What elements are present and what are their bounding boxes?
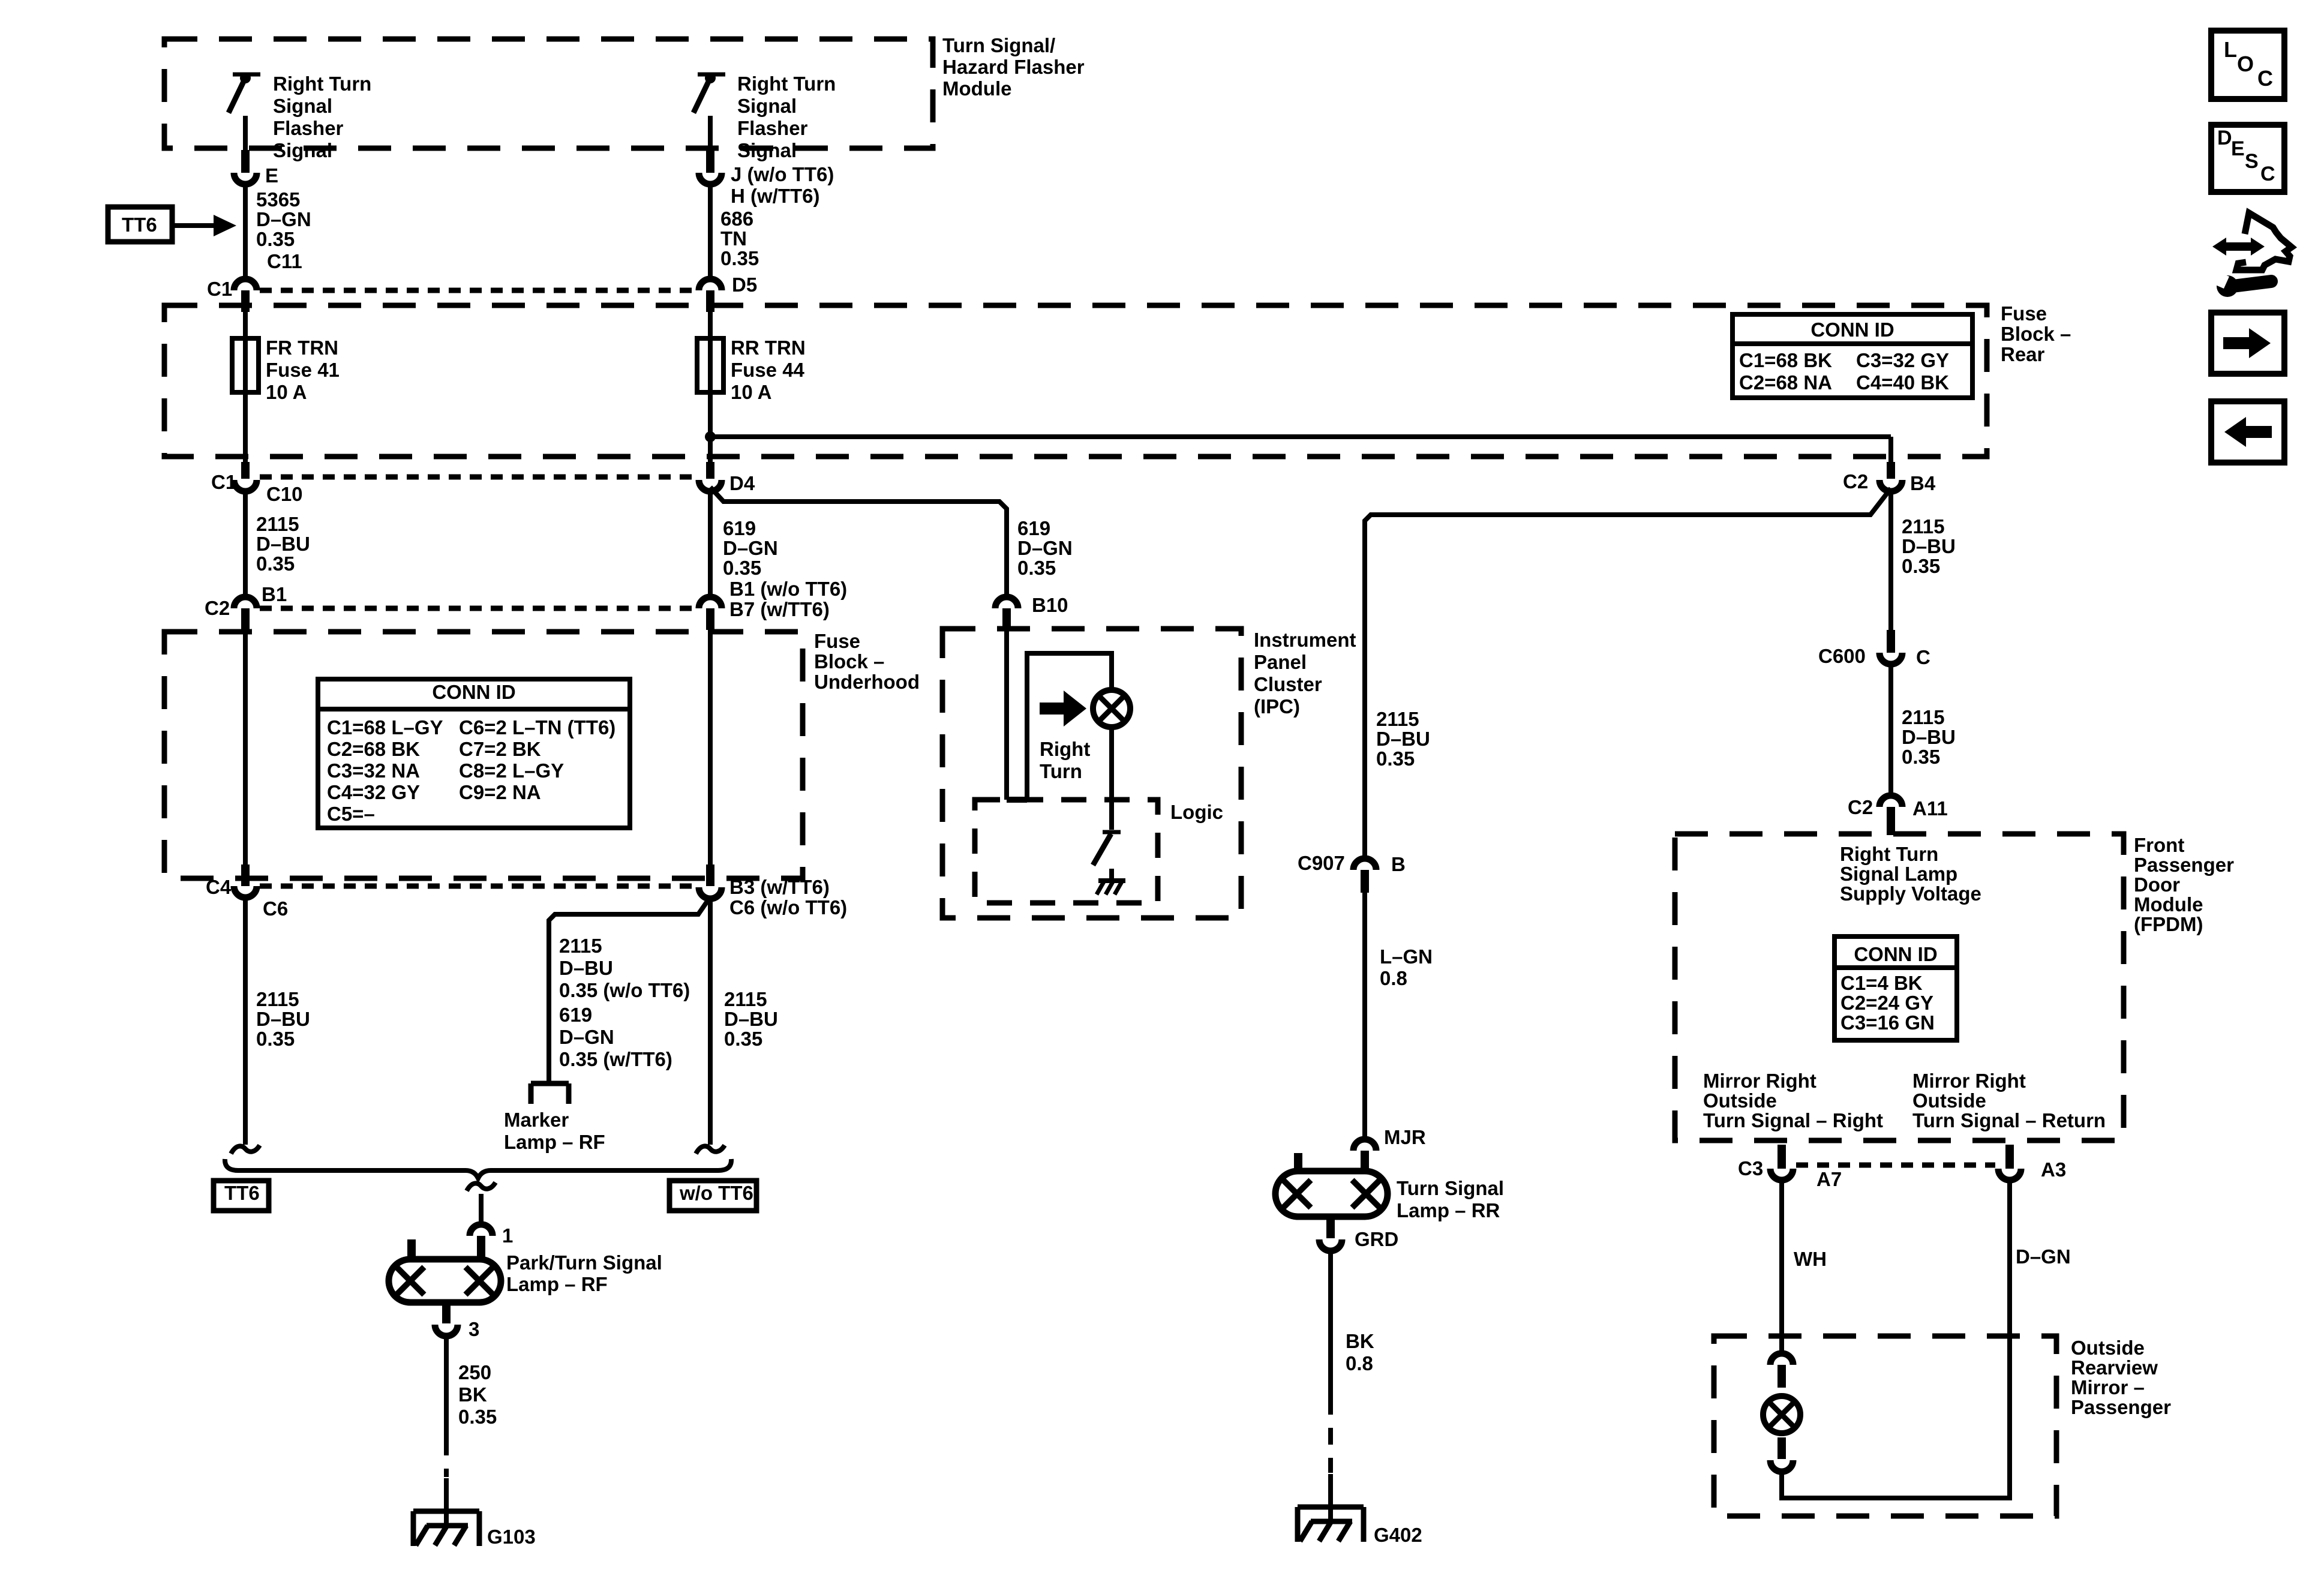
lamp RR filament right — [1352, 1180, 1380, 1208]
dotted line C1 to D5 — [260, 288, 696, 293]
svg-text:Right Turn: Right Turn — [273, 73, 371, 95]
wire fuse44 run down to B4 — [1888, 437, 1893, 464]
svg-text:Mirror –: Mirror – — [2071, 1376, 2145, 1398]
svg-text:E: E — [2231, 137, 2245, 160]
svg-text:H (w/TT6): H (w/TT6) — [731, 185, 819, 207]
svg-text:1: 1 — [502, 1224, 513, 1247]
connector B4 pin — [1887, 462, 1895, 479]
lamp RF bottom pin — [442, 1302, 451, 1323]
IPC right turn indicator lamp — [1093, 690, 1130, 727]
svg-text:5365: 5365 — [256, 188, 300, 211]
brace joining TT6 / w-o TT6 wires — [225, 1159, 731, 1178]
wire tap from B4 to C907 — [1365, 488, 1891, 856]
svg-text:C3: C3 — [1738, 1157, 1763, 1179]
Fuse Block - Underhood box — [164, 632, 803, 878]
svg-text:BK: BK — [1346, 1330, 1374, 1352]
connector C2 pin — [241, 608, 250, 630]
svg-text:C4=40 BK: C4=40 BK — [1856, 371, 1949, 394]
svg-text:0.35: 0.35 — [1902, 746, 1940, 768]
svg-text:0.35 (w/o TT6): 0.35 (w/o TT6) — [559, 979, 690, 1001]
lamp RR left pin — [1294, 1153, 1302, 1171]
svg-text:C6=2 L–TN (TT6): C6=2 L–TN (TT6) — [459, 716, 615, 739]
svg-text:C6 (w/o TT6): C6 (w/o TT6) — [729, 896, 847, 918]
wire B3 down to brace — [708, 899, 713, 1145]
svg-text:Turn: Turn — [1040, 760, 1082, 782]
wrench — [2217, 275, 2238, 297]
svg-text:D5: D5 — [732, 274, 757, 296]
svg-text:A7: A7 — [1816, 1168, 1842, 1190]
dashed wire to G402 — [1328, 1398, 1333, 1473]
svg-text:2115: 2115 — [1376, 708, 1419, 730]
svg-text:TT6: TT6 — [122, 214, 157, 236]
svg-text:w/o TT6: w/o TT6 — [679, 1182, 753, 1204]
svg-text:Right Turn: Right Turn — [1840, 843, 1938, 865]
MJR pin into lamp — [1361, 1151, 1369, 1171]
connector B3/C6 pin — [706, 864, 714, 886]
dotted line C2 to B7 — [260, 606, 696, 611]
svg-text:Fuse: Fuse — [2001, 302, 2047, 325]
svg-text:Rear: Rear — [2001, 343, 2045, 365]
next page icon — [2211, 313, 2284, 374]
svg-text:Signal: Signal — [273, 95, 332, 117]
svg-text:0.35: 0.35 — [724, 1028, 762, 1050]
svg-text:Right Turn: Right Turn — [737, 73, 836, 95]
svg-text:C3=16 GN: C3=16 GN — [1840, 1011, 1935, 1034]
svg-text:D–BU: D–BU — [1376, 728, 1430, 750]
svg-text:686: 686 — [720, 208, 753, 230]
svg-text:Outside: Outside — [1912, 1089, 1986, 1112]
mirror lamp top pin — [1777, 1365, 1786, 1388]
svg-text:C2=68 BK: C2=68 BK — [327, 738, 420, 760]
svg-text:Lamp – RF: Lamp – RF — [506, 1273, 608, 1295]
wire junction to B4 horizontal — [710, 434, 1891, 439]
connector pin J/H — [706, 150, 714, 173]
Park/Turn Signal Lamp - RF body — [389, 1259, 501, 1302]
svg-text:E: E — [265, 164, 278, 187]
FPDM CONN ID table — [1834, 936, 1957, 1040]
connector A3 — [1998, 1169, 2021, 1180]
wire C10 to B1 label 2115 D-BU 0.35 — [243, 491, 248, 597]
svg-text:C2: C2 — [1843, 470, 1868, 493]
LOC icon — [2211, 31, 2284, 99]
svg-text:Supply Voltage: Supply Voltage — [1840, 882, 1981, 905]
flasher switch right — [698, 73, 725, 77]
svg-text:Logic: Logic — [1170, 801, 1223, 823]
svg-text:Signal Lamp: Signal Lamp — [1840, 863, 1957, 885]
connector B3/C6 — [699, 887, 722, 899]
svg-text:A3: A3 — [2041, 1158, 2066, 1181]
ground G402 — [1298, 1505, 1364, 1510]
svg-text:G103: G103 — [487, 1526, 536, 1548]
fuse FR TRN Fuse 41 10A — [232, 338, 259, 392]
connector A7 pin — [1777, 1145, 1786, 1169]
junction below fuse 44 — [705, 431, 716, 442]
svg-text:C3=32 NA: C3=32 NA — [327, 760, 420, 782]
connector C1/C11 — [234, 279, 257, 290]
svg-text:Mirror Right: Mirror Right — [1912, 1070, 2026, 1092]
svg-text:C2=24 GY: C2=24 GY — [1840, 992, 1933, 1014]
svg-text:Mirror Right: Mirror Right — [1703, 1070, 1816, 1092]
connector D4 pin — [706, 462, 714, 479]
lamp RR bottom pin — [1326, 1217, 1335, 1238]
dotted line C1 to D4 — [260, 475, 696, 480]
svg-text:Fuse 41: Fuse 41 — [266, 359, 340, 381]
svg-text:B1: B1 — [262, 583, 287, 605]
svg-text:BK: BK — [458, 1383, 487, 1406]
flasher switch left — [233, 73, 260, 77]
connector 1 pin — [477, 1236, 485, 1259]
wire D4 to B7 label 619 D-GN 0.35 — [708, 491, 713, 595]
svg-text:D–GN: D–GN — [559, 1026, 614, 1048]
wire B4 to C600 label 2115 D-BU 0.35 — [1888, 490, 1893, 630]
svg-text:FR TRN: FR TRN — [266, 337, 338, 359]
connector E — [234, 173, 257, 184]
svg-text:0.35: 0.35 — [720, 247, 759, 269]
mirror loop wire — [1779, 1472, 1784, 1500]
Fuse Block - Rear box — [164, 305, 1987, 457]
svg-text:C9=2 NA: C9=2 NA — [459, 781, 541, 803]
wire C1 to fuse41 — [243, 311, 248, 463]
logic chassis ground — [1098, 878, 1125, 883]
lamp RF filament right — [466, 1267, 493, 1295]
connector A11 pin — [1887, 807, 1895, 835]
logic switch blade — [1093, 834, 1111, 865]
wire branch to marker lamp — [549, 897, 710, 1081]
svg-text:D–BU: D–BU — [256, 533, 310, 555]
mirror lamp socket top — [1770, 1353, 1793, 1365]
svg-text:C4=32 GY: C4=32 GY — [327, 781, 420, 803]
svg-text:D–GN: D–GN — [2016, 1245, 2071, 1268]
svg-text:619: 619 — [559, 1004, 592, 1026]
svg-text:C8=2 L–GY: C8=2 L–GY — [459, 760, 564, 782]
connector D5 — [699, 279, 722, 290]
svg-text:MJR: MJR — [1384, 1126, 1426, 1148]
svg-text:A11: A11 — [1912, 797, 1948, 819]
Turn Signal Lamp - RR body — [1275, 1171, 1388, 1217]
svg-text:0.35: 0.35 — [1376, 748, 1415, 770]
Instrument Panel Cluster box — [942, 629, 1241, 918]
svg-text:C2: C2 — [1848, 796, 1873, 818]
svg-text:Turn Signal: Turn Signal — [1397, 1177, 1504, 1199]
lamp RF filament left — [397, 1267, 424, 1295]
svg-text:(IPC): (IPC) — [1254, 695, 1300, 718]
wire A7 to mirror label WH — [1779, 1180, 1784, 1352]
svg-text:Module: Module — [942, 77, 1011, 100]
svg-text:D4: D4 — [729, 472, 755, 494]
connector C2/B1 — [234, 597, 257, 608]
svg-text:Signal: Signal — [273, 139, 332, 161]
wire D5 to fuse44 — [708, 311, 713, 463]
park/turn lamp left pin — [407, 1239, 416, 1259]
logic switch tick — [1103, 830, 1121, 834]
svg-text:0.35: 0.35 — [256, 553, 295, 575]
svg-text:CONN ID: CONN ID — [1854, 943, 1937, 965]
svg-text:TN: TN — [720, 227, 747, 250]
svg-text:0.35: 0.35 — [256, 228, 295, 250]
svg-text:GRD: GRD — [1355, 1228, 1398, 1250]
connector C2/B4 — [1879, 480, 1902, 491]
svg-text:Turn Signal – Right: Turn Signal – Right — [1703, 1109, 1883, 1131]
svg-text:2115: 2115 — [1902, 515, 1945, 538]
wire D4 branch to B10 — [710, 487, 1007, 597]
svg-text:Turn Signal/: Turn Signal/ — [942, 34, 1055, 56]
wire A3 to mirror label D-GN — [2007, 1180, 2012, 1500]
w/o TT6 option box — [669, 1181, 756, 1211]
svg-text:D–BU: D–BU — [559, 957, 613, 979]
svg-text:C3=32 GY: C3=32 GY — [1856, 349, 1949, 371]
mirror lamp bottom pin — [1777, 1437, 1786, 1459]
svg-text:Instrument: Instrument — [1254, 629, 1356, 651]
svg-text:C: C — [2260, 163, 2275, 185]
svg-text:C7=2 BK: C7=2 BK — [459, 738, 541, 760]
svg-text:TT6: TT6 — [224, 1182, 260, 1204]
dashed wire to G103 — [444, 1439, 449, 1477]
connector C1/C10 pin — [241, 462, 250, 479]
lamp RR filament left — [1283, 1180, 1311, 1208]
connector C600/C — [1879, 653, 1902, 664]
svg-text:0.35: 0.35 — [723, 557, 761, 579]
svg-text:2115: 2115 — [256, 988, 299, 1010]
Front Passenger Door Module box — [1675, 834, 2124, 1140]
svg-text:Panel: Panel — [1254, 651, 1307, 673]
svg-text:B3 (w/TT6): B3 (w/TT6) — [729, 876, 830, 898]
wire through underhood fuse block right — [708, 629, 713, 866]
svg-text:C1: C1 — [207, 278, 232, 300]
svg-text:O: O — [2237, 52, 2254, 76]
svg-text:C2: C2 — [205, 597, 230, 619]
svg-text:S: S — [2245, 150, 2259, 173]
svg-text:10 A: 10 A — [266, 381, 307, 403]
svg-text:L–GN: L–GN — [1380, 945, 1433, 968]
svg-text:D–BU: D–BU — [724, 1008, 778, 1030]
wire break hook right — [696, 1145, 725, 1154]
svg-text:D–BU: D–BU — [1902, 726, 1956, 748]
wire break below brace tip — [467, 1182, 496, 1191]
wire break hook left — [231, 1145, 260, 1154]
wire through underhood fuse block — [243, 629, 248, 866]
connector C4/C6 — [234, 886, 257, 897]
wire E to C1 label 5365 D-GN 0.35 — [243, 184, 248, 279]
svg-text:Fuse: Fuse — [814, 630, 860, 652]
svg-text:3: 3 — [469, 1318, 479, 1340]
svg-text:WH: WH — [1794, 1248, 1827, 1270]
svg-text:RR TRN: RR TRN — [731, 337, 806, 359]
svg-text:Passenger: Passenger — [2071, 1396, 2171, 1418]
svg-text:Fuse 44: Fuse 44 — [731, 359, 805, 381]
TT6 tag box — [108, 207, 172, 242]
svg-text:Block –: Block – — [814, 650, 884, 673]
svg-text:0.8: 0.8 — [1380, 967, 1407, 989]
svg-text:0.35: 0.35 — [1902, 555, 1940, 577]
connector 1 at lamp — [470, 1224, 493, 1236]
svg-text:B7 (w/TT6): B7 (w/TT6) — [729, 598, 830, 620]
svg-text:D: D — [2217, 127, 2232, 149]
svg-text:C6: C6 — [263, 897, 288, 920]
IPC lamp loop wire — [1027, 653, 1112, 800]
svg-text:B4: B4 — [1910, 472, 1936, 494]
svg-text:L: L — [2224, 37, 2237, 62]
connector C907 pin — [1361, 870, 1369, 893]
svg-text:B1 (w/o TT6): B1 (w/o TT6) — [729, 578, 847, 600]
wire C907 to MJR label L-GN 0.8 — [1362, 891, 1367, 1137]
svg-text:C5=–: C5=– — [327, 803, 375, 825]
svg-text:Signal: Signal — [737, 139, 797, 161]
connector B7 — [699, 597, 722, 608]
service icon — [2236, 213, 2292, 270]
logic switch contact — [1109, 869, 1114, 881]
svg-text:Block –: Block – — [2001, 323, 2071, 345]
connector B10 — [995, 597, 1018, 608]
svg-text:C1=68 L–GY: C1=68 L–GY — [327, 716, 443, 739]
svg-text:B: B — [1391, 853, 1406, 875]
connector 3 — [435, 1325, 458, 1336]
svg-text:Lamp – RR: Lamp – RR — [1397, 1199, 1500, 1221]
connector C1 pin — [241, 290, 250, 312]
connector B7 pin — [706, 608, 714, 630]
svg-text:D–GN: D–GN — [723, 537, 778, 559]
connector C600 pin — [1887, 630, 1895, 653]
connector J/H — [699, 173, 722, 184]
previous page icon — [2211, 401, 2284, 463]
svg-text:0.35: 0.35 — [256, 1028, 295, 1050]
svg-text:J (w/o TT6): J (w/o TT6) — [731, 163, 834, 185]
svg-text:C600: C600 — [1818, 645, 1866, 667]
connector C3/A7 — [1770, 1169, 1793, 1180]
wire brace to lamp pin 1 — [479, 1194, 484, 1223]
svg-text:Underhood: Underhood — [814, 671, 920, 693]
svg-text:Outside: Outside — [1703, 1089, 1777, 1112]
svg-text:0.35: 0.35 — [458, 1406, 497, 1428]
wire J to D5 label 686 TN 0.35 — [708, 184, 713, 277]
TT6 option box — [214, 1181, 269, 1211]
Rear CONN ID table — [1733, 314, 1972, 398]
svg-text:2115: 2115 — [256, 513, 299, 535]
svg-text:10 A: 10 A — [731, 381, 771, 403]
fuse RR TRN Fuse 44 10A — [697, 338, 723, 392]
Turn Signal/Hazard Flasher Module box — [164, 39, 933, 148]
connector D5 pin — [706, 290, 714, 312]
Logic box — [975, 800, 1158, 903]
svg-text:C1=68 BK: C1=68 BK — [1739, 349, 1832, 371]
marker lamp terminal — [531, 1081, 569, 1086]
TT6 arrow — [172, 223, 215, 228]
wire switch to J/H — [708, 116, 713, 151]
svg-text:619: 619 — [723, 517, 756, 539]
svg-text:C907: C907 — [1298, 852, 1345, 874]
DESC icon — [2211, 125, 2284, 192]
svg-text:D–BU: D–BU — [256, 1008, 310, 1030]
svg-text:2115: 2115 — [724, 988, 767, 1010]
svg-text:CONN ID: CONN ID — [432, 681, 515, 703]
svg-text:C1=4 BK: C1=4 BK — [1840, 972, 1923, 994]
wire C6 down label 2115 D-BU 0.35 — [243, 897, 248, 1145]
svg-text:Cluster: Cluster — [1254, 673, 1322, 695]
wire GRD to ground label BK 0.8 — [1328, 1252, 1333, 1398]
connector C4/C6 pin — [241, 864, 250, 886]
svg-text:2115: 2115 — [559, 935, 602, 957]
svg-text:C10: C10 — [266, 483, 303, 505]
svg-text:Module: Module — [2134, 893, 2203, 915]
wire B10 into IPC — [1004, 629, 1009, 800]
svg-text:Door: Door — [2134, 873, 2180, 896]
svg-text:Hazard Flasher: Hazard Flasher — [942, 56, 1085, 78]
svg-text:0.35 (w/TT6): 0.35 (w/TT6) — [559, 1048, 672, 1070]
dotted line A7 to A3 — [1796, 1163, 1995, 1168]
svg-text:Passenger: Passenger — [2134, 854, 2234, 876]
connector C1/C10 — [234, 480, 257, 491]
svg-text:CONN ID: CONN ID — [1810, 319, 1894, 341]
svg-text:Flasher: Flasher — [737, 117, 808, 139]
svg-text:0.35: 0.35 — [1017, 557, 1056, 579]
svg-text:Flasher: Flasher — [273, 117, 344, 139]
right turn arrow — [1040, 703, 1065, 715]
svg-text:G402: G402 — [1374, 1524, 1422, 1546]
svg-text:619: 619 — [1017, 517, 1050, 539]
svg-text:Outside: Outside — [2071, 1337, 2145, 1359]
connector MJR — [1353, 1139, 1376, 1151]
connector pin E — [241, 150, 250, 173]
wire 3 to ground label 250 BK 0.35 — [444, 1337, 449, 1439]
mirror turn signal lamp — [1763, 1396, 1800, 1433]
connector A3 pin — [2005, 1145, 2014, 1169]
svg-text:Signal: Signal — [737, 95, 797, 117]
svg-text:Marker: Marker — [504, 1109, 569, 1131]
IPC internal joint — [1007, 797, 1027, 803]
svg-text:C: C — [1916, 646, 1930, 668]
connector B10 pin — [1002, 608, 1011, 630]
mirror lamp socket bottom — [1770, 1460, 1793, 1472]
Outside Rearview Mirror box — [1714, 1336, 2056, 1516]
svg-text:2115: 2115 — [1902, 706, 1945, 728]
svg-text:D–GN: D–GN — [1017, 537, 1073, 559]
connector D4 — [699, 480, 722, 491]
svg-text:B10: B10 — [1032, 594, 1068, 616]
svg-text:Rearview: Rearview — [2071, 1356, 2158, 1379]
svg-text:C: C — [2257, 66, 2273, 91]
svg-text:C2=68 NA: C2=68 NA — [1739, 371, 1832, 394]
svg-text:Lamp – RF: Lamp – RF — [504, 1131, 605, 1153]
dotted line C4 to B3 — [260, 884, 696, 889]
Underhood CONN ID table — [318, 679, 630, 828]
wire C600 to A11 label 2115 D-BU 0.35 — [1888, 664, 1893, 794]
svg-text:Park/Turn Signal: Park/Turn Signal — [506, 1251, 662, 1274]
svg-text:C1: C1 — [211, 471, 236, 493]
svg-text:250: 250 — [458, 1361, 491, 1383]
ground G103 — [413, 1509, 479, 1514]
connector C2/A11 — [1879, 795, 1902, 807]
svg-text:C11: C11 — [267, 250, 302, 272]
connector C907/B — [1353, 858, 1376, 870]
svg-text:Right: Right — [1040, 738, 1090, 760]
svg-text:C4: C4 — [206, 876, 232, 898]
wire lamp to logic switch — [1109, 727, 1114, 830]
svg-text:Front: Front — [2134, 834, 2184, 856]
svg-text:D–BU: D–BU — [1902, 535, 1956, 557]
svg-text:0.8: 0.8 — [1346, 1352, 1373, 1374]
svg-text:(FPDM): (FPDM) — [2134, 913, 2203, 935]
connector GRD — [1319, 1239, 1342, 1251]
svg-text:Turn Signal – Return: Turn Signal – Return — [1912, 1109, 2106, 1131]
svg-text:D–GN: D–GN — [256, 208, 311, 230]
wire switch to E — [243, 116, 248, 151]
